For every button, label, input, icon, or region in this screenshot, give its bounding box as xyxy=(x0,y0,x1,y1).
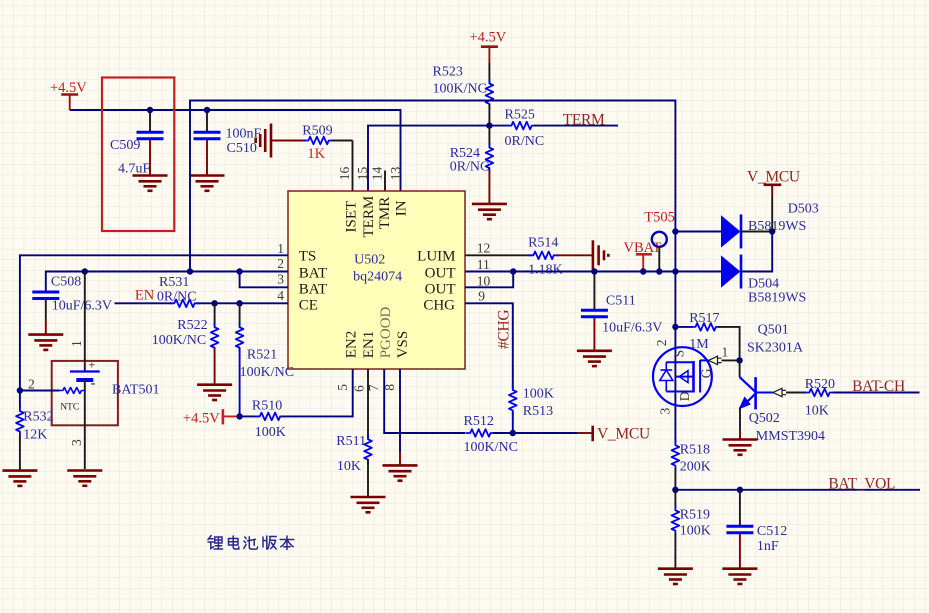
svg-text:R512: R512 xyxy=(464,414,494,429)
svg-text:C511: C511 xyxy=(606,294,636,309)
svg-text:ISET: ISET xyxy=(344,201,360,233)
svg-text:1: 1 xyxy=(69,340,84,347)
resistor R523 100K/NC xyxy=(433,63,494,126)
svg-text:V_MCU: V_MCU xyxy=(747,169,800,186)
Q501 pin labels xyxy=(654,323,804,415)
resistor R519 100K xyxy=(672,490,711,568)
capacitor C510 100nF xyxy=(194,110,262,175)
svg-text:R518: R518 xyxy=(680,443,710,458)
svg-text:10uF/6.3V: 10uF/6.3V xyxy=(52,299,112,314)
svg-text:BAT_VOL: BAT_VOL xyxy=(828,476,895,493)
wire pin3 BAT joins pin2 xyxy=(240,272,288,288)
svg-text:G: G xyxy=(699,368,714,378)
power port V_MCU (top) xyxy=(747,169,800,232)
wire pin10 joins pin11 xyxy=(465,272,513,288)
resistor R511 10K xyxy=(336,369,372,496)
ground (R532) xyxy=(2,471,37,486)
svg-text:BAT: BAT xyxy=(299,265,327,281)
svg-text:SK2301A: SK2301A xyxy=(747,341,804,356)
power port +4.5V (above R523) xyxy=(470,30,507,64)
diode D503 B5819WS xyxy=(675,202,818,249)
node: TERM junction xyxy=(486,122,492,128)
svg-text:D503: D503 xyxy=(788,202,819,217)
transistor Q501 SK2301A (P-MOSFET) xyxy=(653,347,712,406)
power port V_MCU (bottom) xyxy=(513,426,650,443)
node: junction T505 xyxy=(656,268,662,274)
svg-text:C512: C512 xyxy=(757,524,787,539)
svg-text:B5819WS: B5819WS xyxy=(748,219,806,234)
svg-text:0R/NC: 0R/NC xyxy=(505,134,545,149)
svg-text:NTC: NTC xyxy=(60,403,79,413)
svg-text:100K/NC: 100K/NC xyxy=(433,82,487,97)
battery BAT501 box xyxy=(52,361,118,425)
signal ground (left of R509, rotated) xyxy=(256,124,271,158)
svg-text:R514: R514 xyxy=(528,236,558,251)
ground (C510) xyxy=(190,176,225,191)
svg-text:11: 11 xyxy=(477,257,490,272)
svg-text:VSS: VSS xyxy=(395,331,411,359)
svg-text:CE: CE xyxy=(299,298,318,314)
svg-text:10K: 10K xyxy=(805,404,829,419)
svg-text:100K: 100K xyxy=(255,425,286,440)
svg-text:EN: EN xyxy=(135,288,155,304)
svg-text:2: 2 xyxy=(28,377,35,392)
wire VBAT top rail xyxy=(190,101,675,444)
svg-text:LUIM: LUIM xyxy=(417,249,455,265)
svg-text:R520: R520 xyxy=(805,377,835,392)
svg-text:EN1: EN1 xyxy=(361,331,377,359)
resistor R518 200K xyxy=(672,440,711,489)
svg-text:R513: R513 xyxy=(523,404,553,419)
svg-text:12K: 12K xyxy=(23,428,47,443)
svg-text:10K: 10K xyxy=(337,459,361,474)
svg-text:1K: 1K xyxy=(307,146,325,162)
svg-text:3: 3 xyxy=(277,271,284,286)
node: junction C511 xyxy=(591,268,597,274)
svg-text:B5819WS: B5819WS xyxy=(748,291,806,306)
svg-text:C510: C510 xyxy=(227,141,257,156)
svg-text:R509: R509 xyxy=(302,124,332,139)
node: junction battery drop xyxy=(82,268,88,274)
gate arrow (open) xyxy=(709,356,722,364)
wire ground to R509 xyxy=(271,140,306,142)
resistor R514 1.18K xyxy=(528,236,592,278)
node: junction diode cathodes xyxy=(769,228,775,234)
NTC thermistor inside battery xyxy=(20,377,86,413)
svg-text:bq24074: bq24074 xyxy=(353,270,402,285)
svg-text:C508: C508 xyxy=(51,275,81,290)
wire +4.5V rail top-left xyxy=(70,110,401,191)
capacitor C512 1nF xyxy=(726,490,787,568)
svg-text:9: 9 xyxy=(478,288,485,303)
wire gate to junction xyxy=(722,359,740,361)
svg-text:1nF: 1nF xyxy=(757,539,779,554)
ground (Q502 emitter) xyxy=(723,440,758,455)
node: junction main vertical on OUT row xyxy=(672,268,678,274)
svg-text:100K/NC: 100K/NC xyxy=(464,440,518,455)
svg-text:PGOOD: PGOOD xyxy=(378,306,394,358)
svg-text:R519: R519 xyxy=(680,508,710,523)
ground (battery) xyxy=(67,471,102,486)
svg-text:IN: IN xyxy=(393,200,409,216)
svg-text:R525: R525 xyxy=(505,108,535,123)
node: junction VBAT xyxy=(640,268,646,274)
svg-text:12: 12 xyxy=(477,240,491,255)
wire pin4 CE / EN xyxy=(197,302,288,304)
svg-text:BAT: BAT xyxy=(299,282,327,298)
svg-text:TS: TS xyxy=(299,249,317,265)
svg-text:14: 14 xyxy=(370,166,385,180)
pin 14 TMR stub xyxy=(384,171,386,192)
svg-text:16: 16 xyxy=(337,166,352,180)
svg-text:1.18K: 1.18K xyxy=(528,263,563,278)
svg-text:R510: R510 xyxy=(252,399,282,414)
svg-text:#CHG: #CHG xyxy=(496,310,513,349)
node: junction R517 top xyxy=(672,324,678,330)
node: junction C512 xyxy=(737,487,743,493)
svg-text:2: 2 xyxy=(277,256,284,271)
wire OUT row (VBAT) xyxy=(465,271,722,273)
resistor R522 100K/NC xyxy=(152,303,219,383)
svg-text:OUT: OUT xyxy=(425,265,456,281)
svg-text:0R/NC: 0R/NC xyxy=(450,160,490,175)
resistor R517 1M xyxy=(675,311,739,360)
wire pin1 TS to left xyxy=(20,255,288,390)
svg-text:V_MCU: V_MCU xyxy=(597,426,650,443)
svg-text:1: 1 xyxy=(277,241,284,256)
node: junction D503 anode xyxy=(672,228,678,234)
svg-text:TMR: TMR xyxy=(377,197,393,230)
svg-text:Q501: Q501 xyxy=(758,323,789,338)
ground (C511) xyxy=(577,351,612,366)
svg-text:R522: R522 xyxy=(177,318,207,333)
svg-text:100K: 100K xyxy=(523,387,554,402)
red highlight box around C509 xyxy=(102,78,174,232)
ground (C509) xyxy=(133,176,168,191)
svg-text:T505: T505 xyxy=(644,210,675,226)
svg-text:+4.5V: +4.5V xyxy=(50,80,87,96)
node: junction +4.5V/R521/R510 xyxy=(236,413,242,419)
battery BAT501 xyxy=(69,272,160,470)
svg-text:100K: 100K xyxy=(680,524,711,539)
svg-text:BAT-CH: BAT-CH xyxy=(852,378,905,395)
node: junction VBAT riser xyxy=(187,268,193,274)
power port VBAT xyxy=(624,240,662,272)
node: junction R512/R513/V_MCU xyxy=(510,430,516,436)
svg-text:+: + xyxy=(89,358,96,372)
capacitor C508 10uF/6.3V xyxy=(32,275,112,335)
svg-text:-: - xyxy=(91,376,96,392)
svg-text:15: 15 xyxy=(355,166,370,180)
svg-text:0R/NC: 0R/NC xyxy=(157,290,197,305)
resistor R520 10K xyxy=(786,377,920,419)
wire pin12 to R514 xyxy=(465,254,531,256)
svg-text:U502: U502 xyxy=(354,252,385,267)
svg-text:D504: D504 xyxy=(748,277,779,292)
power port +4.5V (at R510) xyxy=(183,409,240,426)
capacitor C509 4.7uF xyxy=(110,110,164,177)
wire BAT_VOL xyxy=(675,489,920,491)
svg-text:TERM: TERM xyxy=(563,112,605,129)
resistor R524 0R/NC xyxy=(450,126,493,203)
base arrow (open) xyxy=(773,388,786,396)
svg-text:R511: R511 xyxy=(336,434,366,449)
transistor Q502 MMST3904 xyxy=(740,360,826,444)
diode D504 B5819WS xyxy=(721,232,806,306)
svg-text:100K/NC: 100K/NC xyxy=(152,333,206,348)
ground (R511) xyxy=(351,497,386,512)
IC U502 bq24074 xyxy=(277,166,490,392)
svg-text:D: D xyxy=(677,391,692,401)
svg-text:R531: R531 xyxy=(159,275,189,290)
ground (C508) xyxy=(28,335,63,350)
svg-text:+4.5V: +4.5V xyxy=(183,411,220,427)
svg-text:4: 4 xyxy=(277,288,284,303)
svg-text:VBAT: VBAT xyxy=(624,240,662,256)
wire pin8 VSS to ground xyxy=(399,369,401,452)
svg-text:10uF/6.3V: 10uF/6.3V xyxy=(602,321,662,336)
svg-text:S: S xyxy=(672,350,687,358)
node: junction pins 10/11 xyxy=(510,268,516,274)
node: junction C509 on rail xyxy=(147,107,153,113)
svg-text:100K/NC: 100K/NC xyxy=(240,365,294,380)
power port +4.5V (top-left) xyxy=(50,80,87,110)
wire pin7 PGOOD to R512 xyxy=(384,369,465,433)
signal ground (right of R514, rotated) xyxy=(593,240,608,270)
svg-text:Q502: Q502 xyxy=(749,411,780,426)
ground (R519) xyxy=(658,569,693,584)
ground (R522) xyxy=(197,385,232,400)
node: junction C510 on rail xyxy=(204,107,210,113)
svg-text:R517: R517 xyxy=(689,311,719,326)
svg-text:200K: 200K xyxy=(680,460,711,475)
ground (C512) xyxy=(722,569,757,584)
resistor R512 100K/NC xyxy=(464,414,518,455)
wire TERM from pin15 xyxy=(368,126,489,191)
resistor R510 100K xyxy=(240,369,353,440)
svg-text:+4.5V: +4.5V xyxy=(470,30,507,46)
svg-text:MMST3904: MMST3904 xyxy=(756,429,825,444)
node: junction R522 top xyxy=(211,300,217,306)
resistor R521 100K/NC xyxy=(236,303,294,416)
wire pin2 BAT to C508 xyxy=(46,272,288,292)
svg-text:5: 5 xyxy=(335,384,350,391)
node: junction TS/NTC/R532 xyxy=(17,387,23,393)
resistor R513 100K xyxy=(509,385,554,433)
test point T505 xyxy=(644,210,675,272)
resistor R532 12K xyxy=(16,391,54,470)
svg-text:R521: R521 xyxy=(247,348,277,363)
resistor R525 0R/NC xyxy=(489,108,618,150)
svg-text:3: 3 xyxy=(69,439,84,446)
svg-text:3: 3 xyxy=(658,408,673,415)
resistor R509 1K xyxy=(302,124,352,192)
svg-text:R532: R532 xyxy=(23,410,53,425)
wire pin9 CHG down xyxy=(465,303,513,388)
node: junction R521 top xyxy=(236,300,242,306)
ground (VSS pin8) xyxy=(383,465,418,480)
svg-text:BAT501: BAT501 xyxy=(112,383,159,398)
node: junction pin3 to pin2 xyxy=(236,268,242,274)
svg-text:R523: R523 xyxy=(433,65,463,80)
svg-text:TERM: TERM xyxy=(361,196,377,238)
svg-text:13: 13 xyxy=(388,166,403,180)
node: junction gate/R517/Q502 xyxy=(736,357,742,363)
svg-text:1: 1 xyxy=(722,345,729,360)
svg-text:C509: C509 xyxy=(110,138,140,153)
svg-text:OUT: OUT xyxy=(425,282,456,298)
svg-text:CHG: CHG xyxy=(423,298,455,314)
resistor R531 0R/NC xyxy=(115,275,200,307)
svg-text:EN2: EN2 xyxy=(344,331,360,359)
node: junction R518/R519 xyxy=(672,487,678,493)
ground (R524) xyxy=(472,204,507,219)
title 锂电池版本 (drawn strokes) xyxy=(208,536,294,550)
svg-text:2: 2 xyxy=(654,340,669,347)
capacitor C511 10uF/6.3V xyxy=(581,272,662,351)
